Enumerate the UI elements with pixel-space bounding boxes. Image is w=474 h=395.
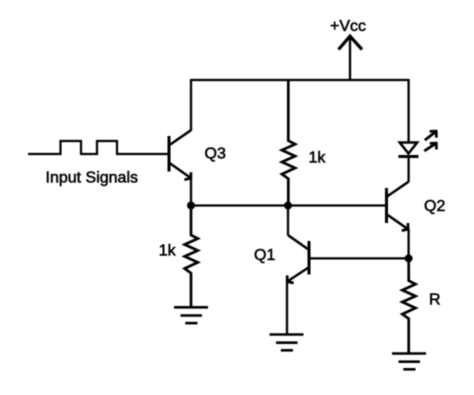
svg-text:Input Signals: Input Signals: [46, 169, 139, 186]
svg-text:Q2: Q2: [424, 198, 445, 215]
svg-text:1k: 1k: [159, 243, 177, 260]
svg-text:R: R: [429, 292, 441, 309]
svg-text:1k: 1k: [309, 150, 327, 167]
svg-text:Q3: Q3: [205, 146, 226, 163]
svg-text:Q1: Q1: [254, 247, 275, 264]
svg-text:+Vcc: +Vcc: [330, 18, 366, 35]
